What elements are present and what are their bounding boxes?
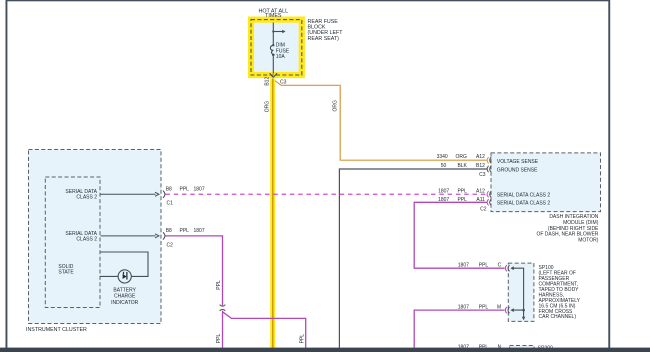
svg-text:BLK: BLK [457, 163, 467, 169]
svg-text:1807: 1807 [194, 228, 205, 234]
svg-text:STATE: STATE [58, 270, 74, 276]
svg-text:PPL: PPL [216, 280, 222, 290]
svg-text:A12: A12 [476, 189, 485, 195]
svg-text:PPL: PPL [457, 189, 467, 195]
svg-text:CLASS 2: CLASS 2 [76, 236, 97, 242]
svg-text:1807: 1807 [438, 197, 449, 203]
svg-text:ORG: ORG [332, 100, 338, 112]
svg-text:PPL: PPL [479, 263, 489, 269]
svg-text:C: C [498, 263, 502, 269]
svg-text:TIMES: TIMES [265, 13, 282, 19]
svg-text:1807: 1807 [458, 263, 469, 269]
svg-text:1807: 1807 [438, 189, 449, 195]
svg-text:PPL: PPL [299, 334, 305, 344]
svg-text:C1: C1 [167, 200, 174, 206]
svg-text:INDICATOR: INDICATOR [111, 300, 138, 306]
svg-text:PPL: PPL [216, 334, 222, 344]
svg-text:M: M [497, 304, 501, 310]
svg-text:C2: C2 [167, 242, 174, 248]
svg-text:MOTOR): MOTOR) [578, 238, 599, 244]
svg-text:ORG: ORG [265, 101, 271, 113]
svg-text:SERIAL DATA CLASS 2: SERIAL DATA CLASS 2 [497, 193, 550, 199]
svg-text:1807: 1807 [458, 304, 469, 310]
svg-text:BATTERY: BATTERY [113, 288, 136, 294]
svg-text:REAR SEAT): REAR SEAT) [308, 36, 340, 42]
svg-text:PPL: PPL [457, 197, 467, 203]
svg-text:3340: 3340 [437, 154, 448, 160]
svg-text:CAR CHANNEL): CAR CHANNEL) [539, 314, 577, 320]
svg-text:PPL: PPL [180, 187, 190, 193]
svg-text:1807: 1807 [194, 187, 205, 193]
svg-text:INSTRUMENT CLUSTER: INSTRUMENT CLUSTER [26, 327, 87, 333]
svg-text:10A: 10A [276, 54, 286, 60]
svg-text:B8: B8 [166, 228, 172, 234]
svg-text:C3: C3 [479, 172, 486, 178]
svg-text:A12: A12 [476, 154, 485, 160]
svg-text:50: 50 [441, 163, 447, 169]
svg-text:A11: A11 [476, 197, 485, 203]
svg-text:CLASS 2: CLASS 2 [76, 195, 97, 201]
svg-text:PPL: PPL [180, 228, 190, 234]
svg-text:VOLTAGE SENSE: VOLTAGE SENSE [497, 159, 539, 165]
svg-text:B8: B8 [166, 187, 172, 193]
svg-text:B12: B12 [476, 163, 485, 169]
svg-text:PPL: PPL [479, 304, 489, 310]
svg-text:ORG: ORG [456, 154, 468, 160]
svg-text:SERIAL DATA CLASS 2: SERIAL DATA CLASS 2 [497, 201, 550, 207]
svg-text:CHARGE: CHARGE [114, 294, 136, 300]
svg-text:GROUND SENSE: GROUND SENSE [497, 168, 538, 174]
svg-text:C2: C2 [480, 206, 487, 212]
svg-text:C3: C3 [280, 79, 287, 85]
svg-text:B12: B12 [265, 77, 271, 86]
